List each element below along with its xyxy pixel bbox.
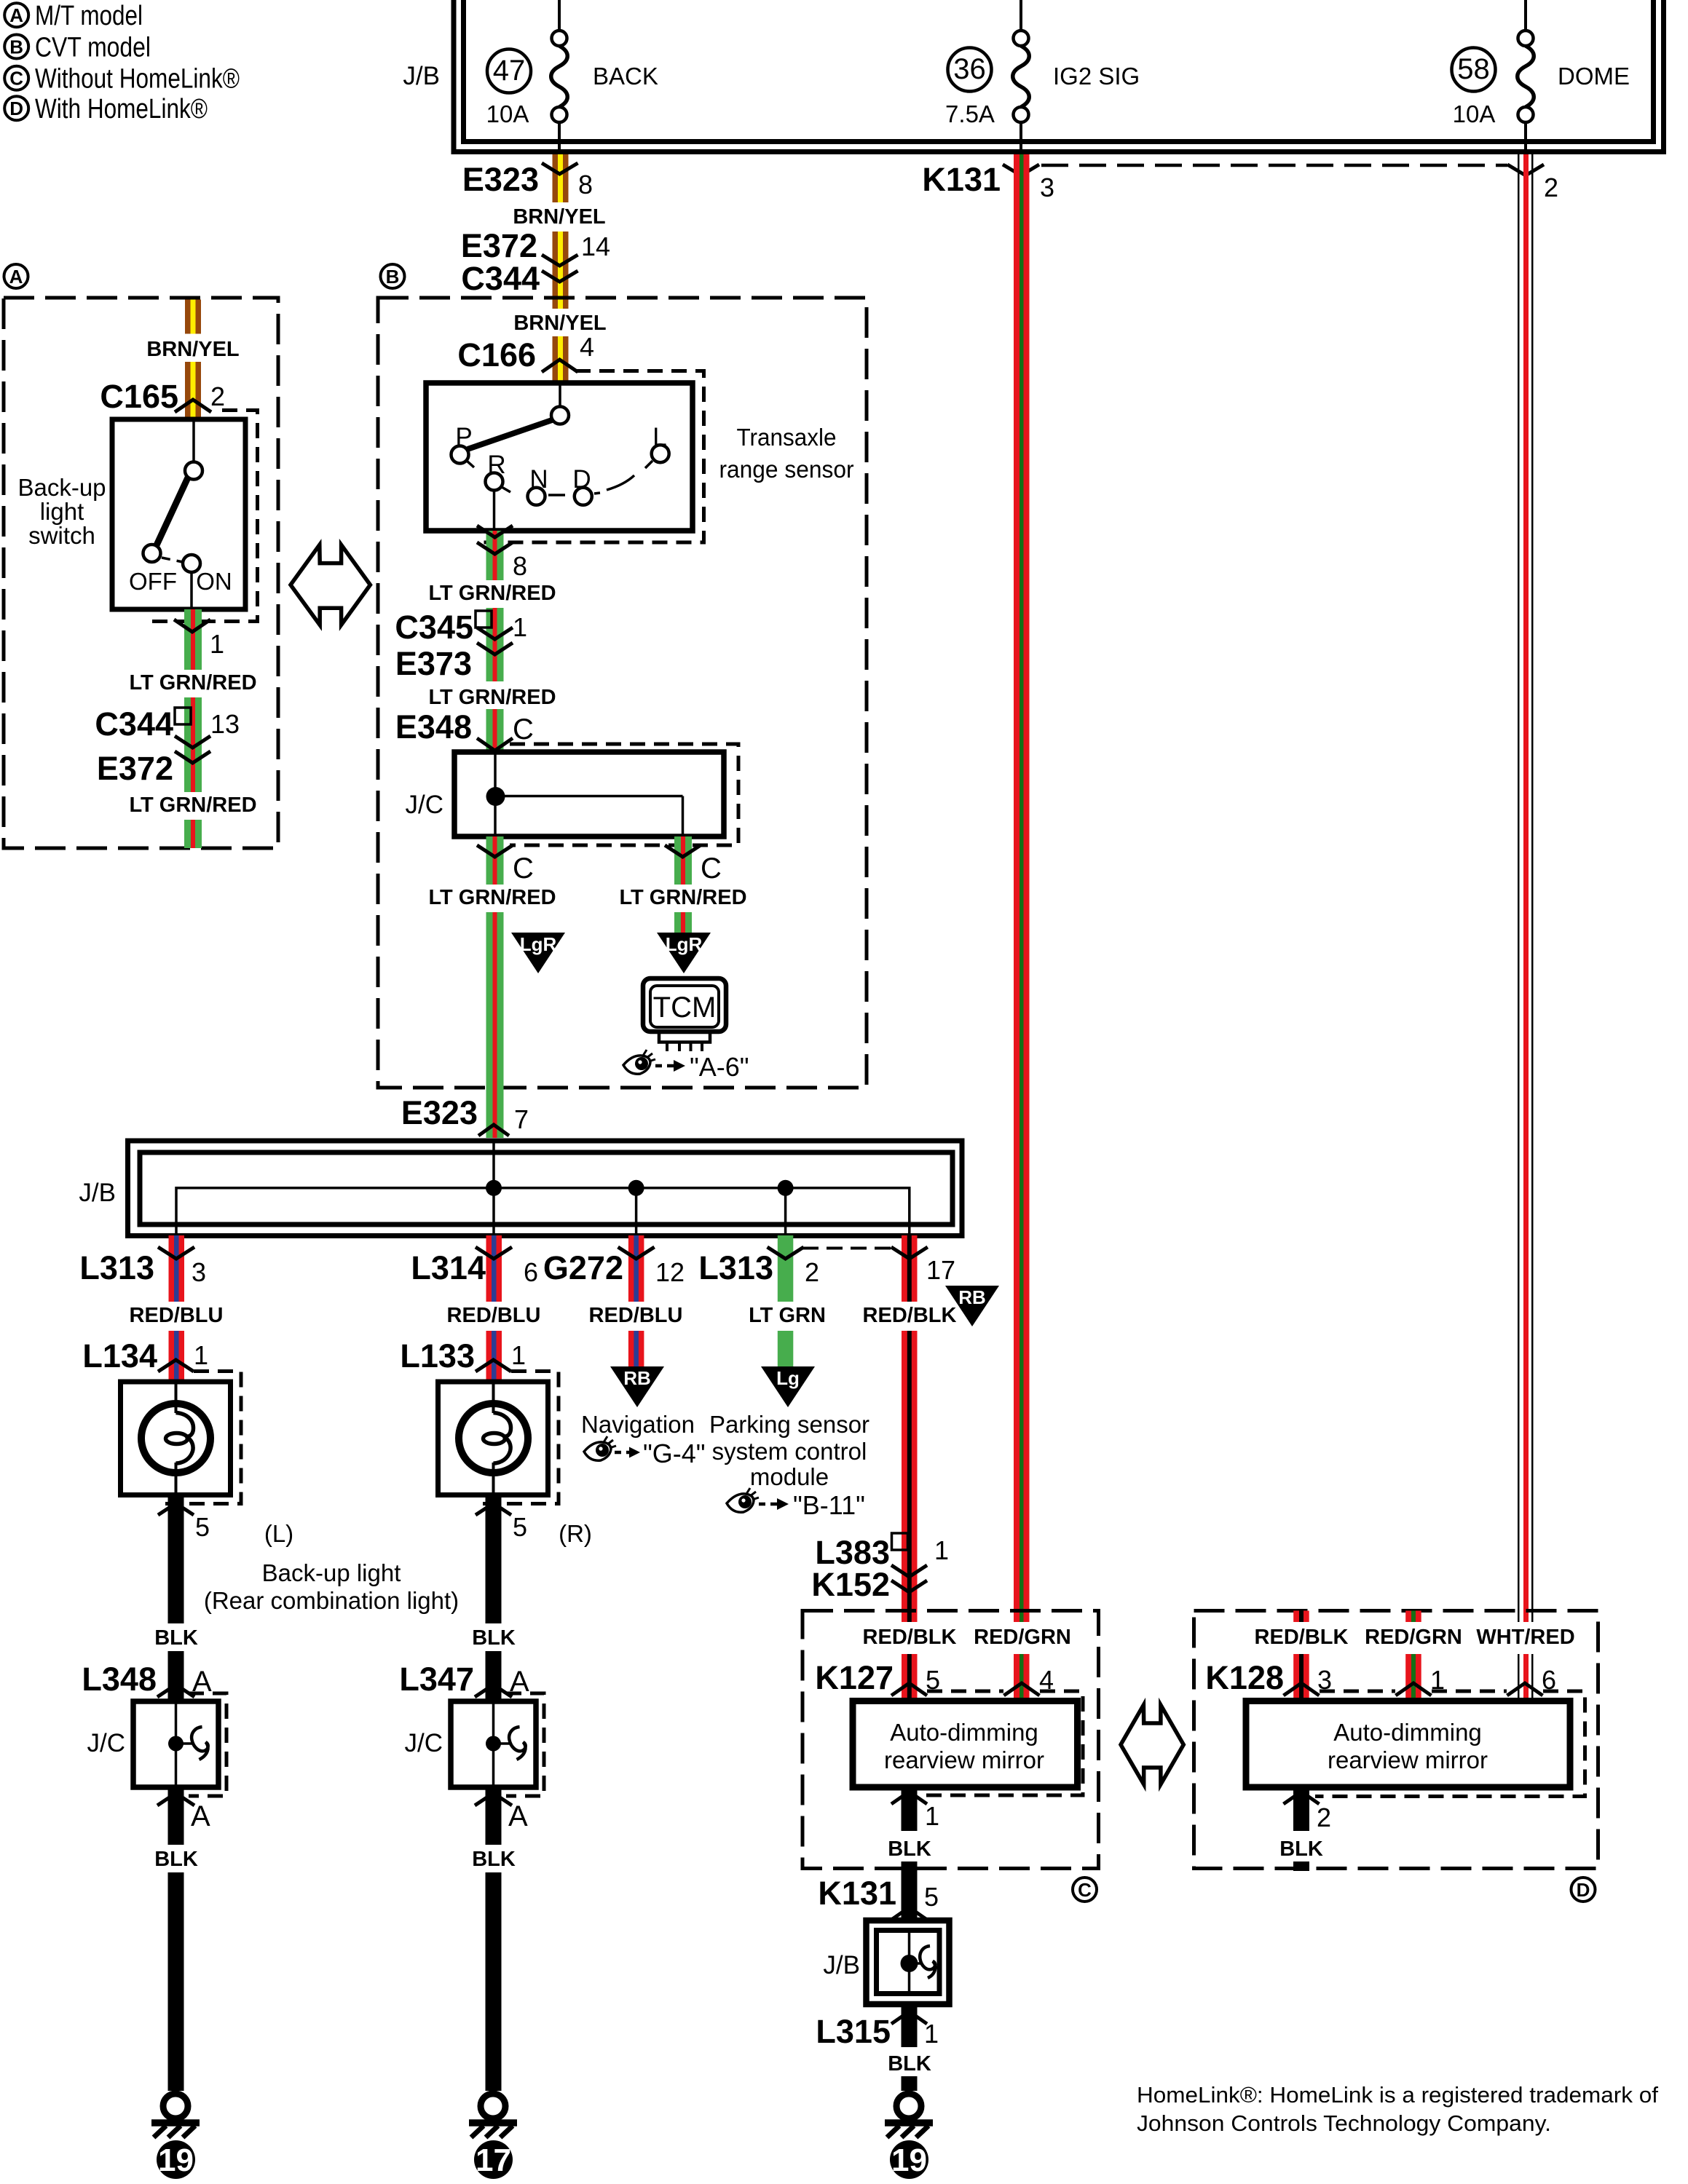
- svg-text:"A-6": "A-6": [690, 1052, 749, 1082]
- connector K127 pin 4: [1004, 1665, 1054, 1696]
- wire color label BLK (mirror C): [888, 1834, 931, 1861]
- svg-text:BRN/YEL: BRN/YEL: [513, 205, 605, 229]
- wire BLK (L bulb down): [168, 1495, 184, 2092]
- dashed box C (without HomeLink): [802, 1611, 1099, 1869]
- J/B internal bus wire: [176, 1141, 910, 1235]
- wire color label BRN/YEL (box A): [146, 336, 239, 361]
- J/B bus junction dot (G272): [628, 1180, 644, 1196]
- svg-text:L314: L314: [411, 1249, 486, 1286]
- legend circled D: [4, 96, 28, 120]
- svg-text:1: 1: [925, 1801, 939, 1831]
- svg-text:C345: C345: [395, 609, 473, 646]
- connector K127 pin 5: [815, 1659, 940, 1696]
- sensor dashed link N-D: [548, 494, 565, 496]
- svg-text:L313: L313: [698, 1249, 773, 1286]
- J/C junction dot: [486, 787, 505, 806]
- svg-text:E323: E323: [462, 161, 539, 198]
- J/B bus junction dot (L313-2): [778, 1180, 794, 1196]
- connector C344 square pin 13 / E372: [95, 705, 240, 787]
- bulb leads (L): [175, 1382, 178, 1495]
- wire color label BRN/YEL (1): [513, 204, 605, 229]
- svg-text:4: 4: [580, 332, 594, 362]
- wire LT GRN/RED right branch to TCM: [674, 836, 692, 938]
- svg-text:module: module: [750, 1463, 829, 1490]
- sensor lead from top: [559, 385, 561, 406]
- svg-text:BLK: BLK: [472, 1848, 516, 1871]
- svg-text:LT GRN/RED: LT GRN/RED: [428, 886, 556, 909]
- wire color label RED/BLK (box D): [1255, 1622, 1349, 1650]
- fuse 36 symbol: [1013, 31, 1030, 154]
- connector E348 pin C: [395, 708, 534, 751]
- junction-block J/B small box (ground path): [867, 1920, 950, 2004]
- double arrow between box C and box D: [1121, 1705, 1183, 1784]
- sensor contact P: [451, 423, 475, 467]
- svg-text:A: A: [9, 4, 23, 26]
- dashed box B (CVT model): [378, 298, 867, 1088]
- svg-text:L315: L315: [816, 2013, 891, 2050]
- svg-text:E323: E323: [401, 1094, 478, 1131]
- bulb dashed connector outline (L): [159, 1372, 241, 1504]
- svg-text:1: 1: [194, 1340, 208, 1370]
- connector C166 pin 4: [457, 332, 594, 396]
- fuse 36 feed wire: [1019, 0, 1022, 31]
- connector K131 pin 5: [818, 1875, 939, 1920]
- svg-text:BLK: BLK: [154, 1626, 198, 1650]
- svg-text:2: 2: [1544, 173, 1558, 202]
- svg-text:17: 17: [926, 1255, 955, 1285]
- K128 dashed connector outline: [1315, 1691, 1585, 1797]
- J/C internal wires: [495, 752, 683, 836]
- wire color label WHT/RED (box D): [1476, 1622, 1574, 1650]
- svg-text:E348: E348: [395, 708, 472, 745]
- connector E323 pin 8: [462, 161, 593, 199]
- wire color label RED/BLK (pin 17): [863, 1302, 957, 1328]
- svg-text:RB: RB: [623, 1367, 651, 1389]
- dashed box D (with HomeLink): [1194, 1611, 1598, 1869]
- svg-text:RB: RB: [958, 1286, 986, 1308]
- svg-text:B: B: [386, 266, 400, 288]
- fuse 58 feed wire: [1524, 0, 1527, 31]
- fuse 58 number circle: [1452, 48, 1496, 92]
- wire RED/BLK (box D): [1293, 1611, 1309, 1701]
- svg-text:5: 5: [924, 1882, 939, 1912]
- dashed box A (M/T model): [4, 298, 278, 848]
- switch internal: lead from top: [192, 419, 195, 462]
- connector pin 5 (L bulb): [158, 1503, 210, 1542]
- svg-text:RED/GRN: RED/GRN: [974, 1626, 1071, 1649]
- svg-text:J/B: J/B: [403, 62, 440, 90]
- wire color label RED/BLU (G272): [589, 1302, 683, 1328]
- svg-text:L134: L134: [82, 1337, 157, 1374]
- svg-text:Without HomeLink®: Without HomeLink®: [35, 64, 240, 95]
- svg-text:2: 2: [805, 1257, 819, 1287]
- svg-text:A: A: [508, 1800, 528, 1832]
- svg-text:Lg: Lg: [776, 1367, 800, 1389]
- svg-text:1: 1: [924, 2019, 939, 2049]
- connector C345 square pin 1 / E373: [395, 609, 527, 682]
- svg-text:C344: C344: [95, 705, 173, 743]
- svg-text:A: A: [191, 1800, 210, 1832]
- wire RED/GRN (box D): [1405, 1611, 1421, 1701]
- svg-text:BRN/YEL: BRN/YEL: [146, 338, 239, 361]
- wire RED/BLU (L314-6 to L133): [486, 1235, 502, 1382]
- svg-text:7.5A: 7.5A: [945, 100, 995, 127]
- connector L313 pin 3: [79, 1247, 206, 1287]
- svg-text:D: D: [9, 98, 23, 119]
- svg-text:K131: K131: [818, 1875, 896, 1912]
- page link triangle Lg (parking sensor): [761, 1366, 815, 1407]
- component label Transaxle range sensor: [719, 424, 854, 483]
- sheet reference eye B-11: [727, 1488, 865, 1520]
- svg-text:range sensor: range sensor: [719, 456, 854, 483]
- bulb dashed connector outline (R): [477, 1372, 559, 1504]
- bulb symbol (L): [141, 1404, 210, 1473]
- svg-text:BLK: BLK: [472, 1626, 516, 1650]
- svg-text:14: 14: [581, 232, 610, 261]
- sensor contact D: [572, 465, 591, 505]
- auto-dimming rearview mirror box (D): [1246, 1701, 1570, 1788]
- svg-text:10A: 10A: [486, 100, 529, 127]
- switch internal: lead to bottom: [190, 572, 193, 609]
- page link triangle RB (at pin 17): [945, 1286, 999, 1326]
- svg-text:(Rear combination light): (Rear combination light): [204, 1587, 459, 1614]
- wire RED/BLK (pin 17 to K127-5): [902, 1235, 918, 1701]
- circled D at box D: [1571, 1878, 1596, 1902]
- wire BLK (R bulb down): [486, 1495, 502, 2092]
- svg-text:M/T model: M/T model: [35, 1, 143, 31]
- connector pin 2 below mirror D: [1284, 1792, 1332, 1832]
- sensor lead R to bottom: [493, 491, 496, 531]
- connector E372 / C344 pin 14: [461, 227, 610, 297]
- svg-text:Navigation: Navigation: [581, 1411, 695, 1438]
- svg-text:C165: C165: [100, 378, 178, 415]
- svg-text:2: 2: [1317, 1803, 1331, 1832]
- connector L315 pin 1: [816, 2011, 939, 2050]
- svg-text:L348: L348: [82, 1661, 157, 1698]
- back-up light switch dashed connector outline: [149, 411, 258, 622]
- legend circled A: [4, 3, 28, 27]
- wire RED/BLU (L313-3 to L134): [169, 1235, 185, 1382]
- svg-text:LT GRN/RED: LT GRN/RED: [428, 686, 556, 709]
- wire color label RED/BLU (middle): [447, 1302, 541, 1328]
- svg-text:CVT model: CVT model: [35, 32, 151, 63]
- sensor contact L: [645, 423, 669, 468]
- junction-block J/B long box outer border: [128, 1141, 963, 1236]
- svg-text:E372: E372: [97, 750, 173, 787]
- svg-text:Parking sensor: Parking sensor: [709, 1411, 869, 1438]
- wire color label RED/BLU (left): [130, 1302, 224, 1328]
- svg-text:L133: L133: [400, 1337, 475, 1374]
- wire color label BRN/YEL (box B): [513, 310, 606, 335]
- connector L348 pin A: [82, 1661, 212, 1698]
- svg-text:1: 1: [513, 612, 527, 642]
- svg-text:8: 8: [578, 170, 593, 199]
- svg-text:C: C: [701, 852, 722, 885]
- sensor contact N: [528, 465, 548, 505]
- svg-text:C: C: [1078, 1879, 1092, 1901]
- connector L347 pin A: [399, 1661, 529, 1698]
- page link triangle RB (navigation): [610, 1366, 664, 1407]
- wire LT GRN/RED in box A: [184, 609, 202, 848]
- junction connector J/C box (box B): [454, 752, 724, 836]
- svg-text:J/B: J/B: [823, 1951, 860, 1979]
- svg-text:17: 17: [476, 2143, 511, 2178]
- connector L133 pin 1: [400, 1337, 526, 1374]
- wire color label RED/BLK (box C): [863, 1622, 957, 1650]
- circled A at box A: [4, 264, 28, 288]
- bulb symbol (R): [459, 1404, 528, 1473]
- svg-text:47: 47: [493, 55, 526, 87]
- svg-text:58: 58: [1457, 53, 1490, 85]
- double arrow between box A and box B: [291, 545, 370, 625]
- svg-text:TCM: TCM: [653, 992, 717, 1024]
- connector L383 square pin 1 / K152: [811, 1533, 949, 1603]
- ground symbol (L): [151, 2094, 200, 2179]
- connector C165 pin 2: [100, 378, 225, 415]
- svg-text:E373: E373: [395, 645, 472, 682]
- svg-text:J/B: J/B: [79, 1179, 116, 1207]
- svg-text:"G-4": "G-4": [643, 1439, 706, 1468]
- back-up light switch box: [112, 419, 245, 609]
- junction-block J/B long box inner border: [140, 1152, 953, 1224]
- K127 dashed connector outline: [923, 1691, 1083, 1795]
- connector link dashed L313 pins 2-17: [802, 1247, 892, 1250]
- svg-text:C: C: [9, 68, 23, 90]
- fuse 58 symbol: [1518, 31, 1534, 154]
- svg-text:C: C: [513, 713, 534, 745]
- svg-text:BLK: BLK: [1279, 1837, 1323, 1861]
- svg-text:J/C: J/C: [87, 1729, 126, 1757]
- svg-text:RED/BLK: RED/BLK: [1255, 1626, 1349, 1649]
- wire color label RED/GRN (box C): [974, 1622, 1071, 1650]
- wire BRN/YEL from fuse 47 to box B: [553, 154, 569, 383]
- wire WHT/RED from fuse 58 to K128 pin 6: [1518, 154, 1534, 1701]
- sheet reference eye G-4: [584, 1436, 706, 1468]
- sheet reference eye A-6: [623, 1050, 749, 1082]
- connector L314 pin 6: [411, 1247, 538, 1287]
- svg-text:RED/BLK: RED/BLK: [863, 1304, 957, 1327]
- svg-text:1: 1: [511, 1340, 526, 1370]
- svg-text:With HomeLink®: With HomeLink®: [35, 94, 208, 124]
- wire color label BLK (L, 2): [154, 1845, 198, 1872]
- svg-text:3: 3: [192, 1257, 206, 1287]
- svg-text:7: 7: [514, 1104, 529, 1134]
- svg-text:switch: switch: [28, 522, 95, 549]
- wire RED/GRN from fuse 36 to K127 pin 4: [1014, 154, 1030, 1701]
- ground symbol (K131 path): [885, 2094, 933, 2179]
- wire BLK (mirror D): [1293, 1787, 1309, 1871]
- svg-text:J/C: J/C: [405, 1729, 443, 1757]
- auto-dimming rearview mirror box (C): [853, 1701, 1078, 1788]
- svg-text:C166: C166: [457, 336, 536, 373]
- svg-text:C344: C344: [461, 260, 540, 297]
- wire LT GRN/RED left branch to E323-7: [486, 836, 504, 1138]
- svg-text:LT GRN/RED: LT GRN/RED: [428, 582, 556, 605]
- svg-text:3: 3: [1040, 173, 1054, 202]
- wire color label LT GRN/RED (above E348): [428, 684, 556, 709]
- sensor blade to P: [468, 420, 552, 449]
- legend circled C: [4, 66, 28, 90]
- svg-text:Auto-dimming: Auto-dimming: [1333, 1719, 1482, 1746]
- switch blade (to OFF): [156, 478, 188, 547]
- svg-text:RED/BLU: RED/BLU: [447, 1304, 541, 1327]
- J/C dashed connector outline (L348): [189, 1693, 226, 1796]
- wire color label LT GRN/RED (left branch): [428, 885, 556, 909]
- fuse 36 number circle: [948, 48, 992, 92]
- connector L313 pin 17: [891, 1247, 955, 1285]
- component label Back-up light (Rear combination light): [204, 1559, 459, 1614]
- connector pin C (left exit of J/C): [477, 845, 534, 885]
- connector pin A below J/C (R): [475, 1793, 528, 1832]
- component label Back-up light switch: [17, 474, 106, 549]
- svg-text:RED/BLU: RED/BLU: [130, 1304, 224, 1327]
- svg-text:13: 13: [210, 709, 240, 739]
- svg-text:LT GRN/RED: LT GRN/RED: [129, 671, 256, 695]
- svg-text:Auto-dimming: Auto-dimming: [890, 1719, 1038, 1746]
- connector pin C (right exit of J/C): [665, 845, 722, 885]
- svg-text:5: 5: [195, 1512, 210, 1542]
- svg-text:D: D: [1577, 1879, 1590, 1901]
- svg-text:LT GRN/RED: LT GRN/RED: [619, 886, 746, 909]
- page link triangle LgR (left): [511, 933, 565, 973]
- connector pin 5 (R bulb): [476, 1503, 527, 1542]
- svg-text:light: light: [40, 498, 84, 525]
- svg-text:rearview mirror: rearview mirror: [884, 1746, 1044, 1773]
- switch ON contact: [183, 555, 200, 572]
- connector G272 pin 12: [543, 1247, 685, 1287]
- ground symbol (R): [469, 2094, 517, 2179]
- svg-text:L313: L313: [79, 1249, 154, 1286]
- svg-text:BACK: BACK: [593, 63, 658, 90]
- sensor contact R: [486, 451, 511, 492]
- transaxle range sensor box: [426, 383, 693, 531]
- sensor common contact: [551, 407, 569, 424]
- switch common contact: [185, 462, 202, 480]
- connector link dashed K131 pins 3-2: [1041, 164, 1507, 167]
- junction-block J/B top box inner border: [464, 0, 1654, 142]
- svg-text:B: B: [9, 36, 23, 58]
- connector K128 pin 1: [1396, 1665, 1446, 1696]
- fuse 47 number circle: [487, 50, 531, 93]
- svg-text:BLK: BLK: [888, 2052, 931, 2076]
- svg-text:1: 1: [934, 1535, 949, 1565]
- svg-text:G272: G272: [543, 1249, 623, 1286]
- wire color label BLK (L315): [888, 2049, 931, 2076]
- svg-text:OFF: OFF: [129, 568, 177, 595]
- wire LT GRN/RED sensor to J/C (box B): [486, 531, 504, 752]
- wire BRN/YEL in box A: [185, 300, 201, 420]
- svg-text:E372: E372: [461, 227, 537, 264]
- wire color label LT GRN/RED (box A, 2): [129, 792, 256, 817]
- svg-text:8: 8: [513, 551, 527, 581]
- svg-text:LT GRN/RED: LT GRN/RED: [129, 794, 256, 817]
- fuse 47 symbol: [551, 31, 568, 154]
- svg-text:system control: system control: [712, 1438, 867, 1465]
- svg-text:C: C: [513, 852, 534, 885]
- fuse 47 feed wire: [558, 0, 561, 31]
- svg-text:1: 1: [210, 629, 224, 659]
- svg-text:A: A: [9, 266, 23, 288]
- svg-text:BLK: BLK: [154, 1848, 198, 1871]
- svg-text:BLK: BLK: [888, 1837, 931, 1861]
- wire color label BLK (L, 1): [154, 1623, 198, 1651]
- svg-text:(R): (R): [559, 1520, 592, 1547]
- junction connector J/C box (L348): [133, 1701, 218, 1787]
- junction-block J/B top box outer border: [454, 0, 1664, 152]
- circled C at box C: [1073, 1878, 1097, 1902]
- transaxle range sensor dashed connector outline: [481, 371, 704, 543]
- legend circled B: [4, 35, 28, 59]
- svg-text:DOME: DOME: [1558, 63, 1630, 90]
- svg-text:RED/GRN: RED/GRN: [1365, 1626, 1462, 1649]
- svg-text:Back-up light: Back-up light: [262, 1559, 401, 1586]
- wire color label LT GRN: [749, 1302, 826, 1328]
- svg-text:J/C: J/C: [406, 791, 444, 819]
- svg-text:HomeLink®: HomeLink is a regis: HomeLink®: HomeLink is a registered trad…: [1137, 2082, 1658, 2108]
- svg-text:WHT/RED: WHT/RED: [1476, 1626, 1574, 1649]
- switch OFF contact: [143, 545, 161, 562]
- svg-text:K131: K131: [922, 161, 1001, 198]
- trademark note HomeLink: [1137, 2082, 1658, 2136]
- connector K128 pin 6: [1507, 1665, 1557, 1696]
- svg-text:Back-up: Back-up: [17, 474, 106, 501]
- svg-text:(L): (L): [264, 1520, 293, 1547]
- circled B at box B: [381, 264, 405, 288]
- J/C dashed connector outline (box B): [510, 744, 738, 845]
- destination label Parking sensor system control module: [709, 1411, 869, 1490]
- svg-text:Johnson Controls Technology Co: Johnson Controls Technology Company.: [1137, 2110, 1551, 2136]
- wire color label BLK (R, 2): [472, 1845, 516, 1872]
- svg-text:LgR: LgR: [666, 933, 703, 955]
- connector pin 1 below mirror C: [891, 1792, 939, 1831]
- svg-text:36: 36: [953, 53, 986, 85]
- J/C dashed connector outline (L347): [506, 1693, 544, 1796]
- svg-text:K152: K152: [811, 1566, 890, 1603]
- svg-text:5: 5: [513, 1512, 527, 1542]
- svg-text:ON: ON: [196, 568, 232, 595]
- svg-text:19: 19: [158, 2143, 194, 2178]
- svg-text:2: 2: [210, 381, 225, 411]
- svg-text:IG2 SIG: IG2 SIG: [1053, 63, 1140, 90]
- page link triangle LgR (right): [657, 933, 711, 973]
- wire color label BLK (R, 1): [472, 1623, 516, 1651]
- svg-text:"B-11": "B-11": [793, 1490, 865, 1520]
- connector L313 pin 2: [698, 1247, 819, 1287]
- junction connector J/C box (L347): [451, 1701, 536, 1787]
- connector E323 pin 7: [401, 1094, 529, 1136]
- wire BLK (mirror C to J/B): [902, 1787, 918, 1920]
- wire color label LT GRN/RED (right branch): [619, 885, 746, 909]
- svg-text:Transaxle: Transaxle: [737, 424, 837, 451]
- connector K131 pin 3 (IG2): [922, 161, 1054, 202]
- wire LT GRN (L313-2 to Lg): [778, 1235, 794, 1369]
- sensor dashed arc D-L: [594, 475, 634, 494]
- svg-text:19: 19: [891, 2143, 927, 2178]
- back-up light bulb box (L): [121, 1382, 231, 1495]
- svg-text:LgR: LgR: [520, 933, 557, 955]
- svg-text:RED/BLK: RED/BLK: [863, 1626, 957, 1649]
- wire color label BLK (mirror D): [1279, 1834, 1323, 1861]
- svg-text:K128: K128: [1205, 1659, 1284, 1696]
- connector K128 pin 3: [1205, 1659, 1332, 1696]
- back-up light bulb box (R): [438, 1382, 548, 1495]
- wire BLK (L315 to ground): [902, 2004, 918, 2091]
- svg-text:12: 12: [655, 1257, 685, 1287]
- svg-text:K127: K127: [815, 1659, 894, 1696]
- connector pin 2 (DOME): [1507, 165, 1558, 202]
- wire color label LT GRN/RED (below pin 8): [428, 580, 556, 605]
- svg-text:L347: L347: [399, 1661, 474, 1698]
